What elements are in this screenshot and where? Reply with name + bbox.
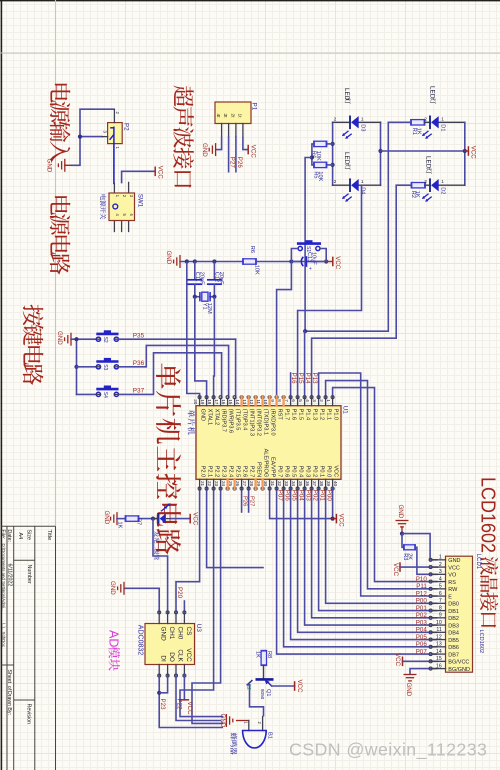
svg-text:S3: S3	[102, 364, 108, 370]
svg-text:DB2: DB2	[448, 616, 459, 622]
svg-text:VCC: VCC	[185, 648, 192, 662]
svg-text:2: 2	[319, 399, 324, 402]
svg-text:8050: 8050	[260, 689, 265, 700]
power VCC ADC	[180, 699, 190, 701]
svg-text:VCC: VCC	[334, 256, 341, 270]
node junction reset right	[324, 259, 328, 263]
svg-text:20pF: 20pF	[199, 272, 205, 285]
wire R4R5 to P14 node	[305, 158, 312, 332]
wire LCD pin16 to ground	[410, 669, 438, 675]
svg-text:21: 21	[200, 481, 205, 487]
svg-text:Number: Number	[26, 565, 32, 584]
svg-text:GND: GND	[165, 251, 172, 265]
svg-text:P0.6: P0.6	[284, 466, 290, 478]
wire P2.7 stub	[248, 488, 250, 513]
svg-text:16: 16	[221, 399, 226, 405]
power VCC top right	[465, 150, 469, 152]
switch S1	[298, 242, 320, 245]
svg-text:GND: GND	[219, 714, 226, 728]
connector P1	[215, 102, 251, 124]
svg-text:13: 13	[436, 642, 442, 648]
svg-text:(INT1)P3.3: (INT1)P3.3	[249, 409, 255, 436]
label 发光二极管	[154, 531, 160, 560]
svg-text:5: 5	[298, 399, 303, 402]
svg-text:CH0: CH0	[176, 627, 183, 640]
node junction VCC rail	[378, 149, 382, 153]
node junction R4R5 left	[310, 155, 314, 159]
svg-text:DB4: DB4	[448, 631, 459, 637]
svg-text:28: 28	[249, 481, 254, 487]
svg-text:File:: File:	[0, 530, 6, 540]
svg-text:12: 12	[436, 634, 442, 640]
svg-text:Date:: Date:	[6, 530, 12, 542]
svg-text:32: 32	[277, 481, 282, 487]
svg-text:4: 4	[439, 576, 442, 582]
svg-text:22: 22	[207, 481, 212, 487]
wire ADC DI down	[159, 675, 223, 728]
svg-text:VCC: VCC	[296, 680, 303, 694]
svg-text:P1.4: P1.4	[305, 409, 311, 421]
svg-text:1K: 1K	[416, 128, 422, 135]
wire P2.3 down	[192, 488, 223, 724]
svg-text:RST: RST	[277, 409, 283, 421]
resistor R1	[411, 120, 425, 125]
svg-text:P0.0: P0.0	[326, 466, 332, 478]
svg-text:P04: P04	[416, 627, 428, 634]
svg-text:15: 15	[228, 399, 233, 405]
svg-text:P27: P27	[249, 496, 255, 506]
svg-text:1K: 1K	[414, 191, 420, 198]
wire EA to VCC	[270, 488, 333, 519]
node junction DI DO	[157, 691, 161, 695]
pin 1 of P2	[113, 144, 115, 184]
wire P36	[119, 345, 229, 398]
label 单片机	[188, 410, 195, 435]
svg-text:1: 1	[243, 722, 248, 725]
svg-text:34: 34	[291, 481, 296, 487]
svg-text:DB3: DB3	[448, 623, 459, 629]
svg-text:2: 2	[115, 112, 120, 115]
svg-text:20pF: 20pF	[218, 272, 224, 285]
ground GND buttons	[65, 333, 71, 346]
wire P1 pin1 to VCC	[243, 137, 248, 150]
wire P1.5 stub	[297, 311, 299, 399]
svg-text:P37: P37	[133, 388, 145, 395]
svg-text:14: 14	[436, 649, 442, 655]
pins U1 top	[199, 398, 201, 405]
wire P0.2 to DB2	[312, 488, 438, 618]
svg-text:P2.4: P2.4	[228, 466, 234, 478]
svg-text:LED: LED	[424, 156, 431, 169]
svg-text:ALE/PROG: ALE/PROG	[263, 449, 269, 478]
svg-text:BG/GND: BG/GND	[448, 667, 470, 673]
svg-text:GND: GND	[56, 331, 63, 345]
svg-text:1: 1	[361, 116, 364, 122]
wire crystal rail	[180, 261, 243, 263]
svg-text:P1.3: P1.3	[312, 409, 318, 421]
svg-text:+: +	[306, 267, 312, 270]
wire ADC CS stub	[183, 601, 185, 614]
button S2	[96, 333, 118, 336]
svg-text:12: 12	[249, 399, 254, 405]
capacitor C12	[213, 262, 215, 280]
wire Q1 collector to buzzer	[247, 685, 263, 717]
svg-text:20: 20	[193, 399, 198, 405]
wire S1 left leg	[291, 249, 298, 262]
wire XTAL2 to MCU	[213, 297, 216, 399]
ic U3 ADC0832 body	[145, 624, 195, 665]
node junction Y1 left	[193, 295, 197, 299]
svg-text:P00: P00	[325, 490, 332, 502]
svg-text:D4: D4	[359, 187, 365, 194]
wire XTAL1 to MCU	[195, 297, 207, 399]
svg-text:P15: P15	[297, 373, 304, 385]
svg-text:R8: R8	[266, 651, 272, 658]
resistor R7	[126, 516, 139, 521]
crystal Y1	[195, 296, 200, 298]
wire S1 right leg	[320, 249, 326, 262]
svg-text:P0.4: P0.4	[298, 466, 304, 478]
label 电源电路	[50, 196, 71, 274]
svg-text:10K: 10K	[317, 171, 323, 181]
svg-text:P1.7: P1.7	[284, 409, 290, 421]
svg-text:P26: P26	[242, 496, 248, 506]
diode D3	[333, 121, 350, 123]
svg-text:A4: A4	[17, 533, 23, 540]
diode D4	[333, 184, 350, 186]
svg-text:LCD1602: LCD1602	[477, 477, 499, 553]
wire P2 pin2 to junction to GND	[71, 109, 114, 165]
svg-text:P0.5: P0.5	[291, 466, 297, 478]
wire P1.2 to LCD E	[319, 373, 438, 596]
svg-text:DB7: DB7	[448, 652, 459, 658]
svg-text:6/11/2022: 6/11/2022	[6, 564, 12, 587]
svg-text:P36: P36	[133, 360, 145, 367]
svg-text:P01: P01	[318, 490, 325, 502]
svg-text:10: 10	[263, 399, 268, 405]
power VCC DS1	[189, 514, 191, 524]
connector P2	[108, 123, 123, 144]
wire net P26	[235, 137, 237, 172]
wire SW1 pin2 to VCC	[122, 171, 156, 183]
svg-text:11: 11	[256, 399, 261, 404]
svg-text:GND: GND	[103, 511, 110, 525]
wire P1.6 stub	[290, 373, 292, 398]
node junction R4	[331, 142, 335, 146]
wire R2 to P13 net	[312, 185, 412, 338]
svg-text:35: 35	[298, 481, 303, 487]
svg-text:P1.5: P1.5	[298, 409, 304, 421]
label 单片机主控电路	[156, 363, 181, 554]
svg-text:11: 11	[436, 627, 441, 633]
wire P0.1 to DB1	[319, 488, 438, 611]
svg-text:CLK: CLK	[176, 649, 183, 662]
svg-text:1: 1	[441, 116, 444, 122]
svg-text:38: 38	[319, 481, 324, 487]
label 蜂鸣器	[230, 733, 237, 755]
svg-text:39: 39	[326, 481, 331, 487]
svg-text:VCC: VCC	[249, 145, 256, 159]
svg-text:GND: GND	[448, 558, 460, 564]
node junction LCD gnd	[400, 532, 404, 536]
power VCC near P1	[247, 145, 249, 155]
pins U3 bottom	[158, 665, 160, 675]
svg-text:DI: DI	[160, 655, 167, 662]
svg-text:33: 33	[284, 481, 289, 487]
power VCC LCD pin2	[399, 562, 401, 572]
wire R6 to reset node	[256, 261, 326, 263]
power VCC reset	[332, 257, 334, 267]
svg-text:VCC: VCC	[338, 514, 345, 528]
svg-text:VCC: VCC	[156, 166, 163, 180]
resistor R5	[327, 164, 333, 166]
svg-text:P12: P12	[416, 590, 428, 597]
svg-text:10: 10	[436, 620, 442, 626]
svg-text:BG/VCC: BG/VCC	[448, 660, 469, 666]
svg-text:36: 36	[305, 481, 310, 487]
wire R1 to P14 net	[305, 122, 411, 331]
svg-text:GND: GND	[397, 505, 404, 519]
ground GND near P1	[209, 143, 215, 156]
svg-text:Sheet of: Sheet of	[6, 670, 12, 691]
svg-text:U1: U1	[342, 406, 349, 415]
svg-text:CH1: CH1	[168, 627, 175, 640]
wire P0.5 to DB5	[291, 488, 438, 640]
svg-text:PSEN: PSEN	[256, 462, 262, 477]
svg-text:10uF: 10uF	[311, 252, 317, 265]
svg-text:P02: P02	[416, 612, 428, 619]
diode D2	[425, 184, 430, 186]
ground GND LCD bottom	[404, 675, 417, 681]
svg-text:P1.0: P1.0	[333, 409, 339, 421]
svg-text:7: 7	[284, 399, 289, 402]
svg-text:4: 4	[305, 399, 310, 402]
svg-text:3: 3	[439, 569, 442, 575]
wire GND to MCU pin20	[187, 262, 200, 399]
wire P1.1 to LCD RW	[326, 381, 438, 589]
svg-text:P2.2: P2.2	[214, 466, 220, 478]
wire D4 to P15 net	[298, 185, 362, 310]
resistor R3	[402, 534, 404, 548]
svg-text:P06: P06	[283, 490, 290, 502]
svg-text:LED: LED	[343, 152, 350, 165]
wire VCC pin40	[332, 488, 334, 519]
resistor R2	[412, 183, 426, 188]
svg-text:17: 17	[214, 399, 219, 405]
resistor R4	[327, 143, 333, 145]
svg-text:1: 1	[326, 399, 331, 402]
button S4	[96, 388, 118, 391]
svg-text:P2.3: P2.3	[221, 466, 227, 478]
svg-text:2: 2	[439, 562, 442, 568]
svg-text:ADC0832: ADC0832	[136, 625, 143, 655]
svg-text:P0.3: P0.3	[305, 466, 311, 478]
svg-text:29: 29	[256, 481, 261, 487]
svg-text:S2: S2	[102, 337, 108, 343]
svg-text:13: 13	[242, 399, 247, 405]
svg-text:DO: DO	[168, 652, 175, 662]
svg-text:P1.1: P1.1	[326, 409, 332, 421]
pins U3 top	[158, 614, 160, 624]
resistor R8	[261, 651, 266, 666]
orange highlight bottom pins	[226, 479, 228, 489]
svg-text:P27: P27	[229, 157, 236, 169]
svg-text:2: 2	[424, 179, 427, 185]
svg-text:DB1: DB1	[448, 609, 459, 615]
svg-text:S4: S4	[102, 392, 108, 398]
svg-text:P07: P07	[416, 648, 428, 655]
svg-text:19: 19	[200, 399, 205, 405]
svg-text:LED: LED	[428, 86, 435, 99]
diode D1	[425, 121, 430, 123]
svg-text:SW1: SW1	[137, 194, 144, 208]
buzzer B1	[248, 721, 250, 731]
svg-text:(WR)P3.6: (WR)P3.6	[228, 409, 234, 434]
wire ADC VCC down	[183, 675, 185, 700]
svg-text:Revision: Revision	[26, 704, 32, 725]
svg-text:VCC: VCC	[448, 565, 460, 571]
svg-text:10K: 10K	[253, 265, 259, 275]
sheet inner border horizontal	[0, 52, 500, 54]
svg-text:3: 3	[312, 399, 317, 402]
svg-text:8: 8	[277, 399, 282, 402]
svg-text:14: 14	[235, 399, 240, 405]
wire net P27	[228, 137, 230, 172]
wire P1.0 to LCD RS	[333, 388, 438, 582]
svg-text:9: 9	[270, 399, 275, 402]
wire P0.7 to DB7	[277, 488, 438, 655]
svg-text:1: 1	[115, 147, 120, 150]
svg-text:RW: RW	[448, 587, 458, 593]
svg-text:P26: P26	[236, 157, 243, 169]
svg-text:7: 7	[439, 598, 442, 604]
wire gnd to LCD pin1	[402, 534, 438, 560]
svg-text:2: 2	[334, 179, 337, 185]
pin 2 of P2	[113, 109, 115, 122]
svg-text:15: 15	[436, 656, 442, 662]
svg-text:E: E	[448, 594, 452, 600]
ground GND ADC	[118, 582, 124, 595]
svg-text:6: 6	[439, 591, 442, 597]
svg-text:VCC: VCC	[392, 563, 399, 577]
svg-text:P1.6: P1.6	[291, 409, 297, 421]
label 按键电路	[23, 305, 44, 385]
svg-text:P05: P05	[416, 634, 428, 641]
svg-text:P1: P1	[251, 103, 258, 111]
svg-text:P14: P14	[304, 373, 311, 385]
svg-text:DB5: DB5	[448, 638, 459, 644]
node junction R5	[331, 163, 335, 167]
svg-text:(RD)P3.7: (RD)P3.7	[221, 409, 227, 432]
node junction P14 net	[303, 329, 307, 333]
svg-text:Title: Title	[46, 530, 52, 541]
svg-text:24: 24	[221, 481, 226, 487]
svg-text:5: 5	[439, 584, 442, 590]
power VCC near SW1	[154, 167, 156, 177]
svg-text:1K: 1K	[117, 522, 123, 529]
wire reset to RST pin	[277, 262, 292, 399]
svg-text:P35: P35	[133, 332, 145, 339]
svg-text:12M: 12M	[206, 303, 212, 314]
svg-text:LCD1602: LCD1602	[478, 630, 484, 654]
svg-text:P07: P07	[276, 490, 283, 502]
title block lines	[1, 526, 55, 770]
orange highlight top pins	[240, 396, 242, 406]
svg-text:P0.2: P0.2	[312, 466, 318, 478]
node junction C11	[193, 259, 197, 263]
svg-text:R6: R6	[249, 246, 255, 253]
pins U1 bottom	[199, 479, 201, 487]
wire ADC GND pin to ground	[124, 588, 159, 613]
wire LED loop right	[380, 122, 382, 185]
svg-text:P1.2: P1.2	[319, 409, 325, 421]
capacitor C11	[194, 262, 196, 280]
svg-text:D1: D1	[440, 124, 446, 131]
label 电源开关	[100, 195, 106, 220]
ground GND DS1 row	[111, 512, 117, 525]
ground GND crystal rail	[174, 255, 180, 268]
wire P37	[119, 353, 222, 399]
svg-text:VCC: VCC	[470, 146, 477, 160]
node junction button row2	[74, 365, 78, 369]
svg-text:P00: P00	[416, 598, 428, 605]
svg-text:P16: P16	[290, 373, 297, 385]
svg-text:2t: 2t	[229, 114, 235, 119]
svg-text:40: 40	[333, 481, 338, 487]
wire DS1 node to ADC CH1	[153, 519, 168, 614]
sheet inner border vertical	[55, 0, 57, 770]
svg-text:AD: AD	[107, 630, 121, 647]
svg-text:P05: P05	[290, 490, 297, 502]
svg-text:VCC: VCC	[333, 465, 339, 477]
svg-text:P01: P01	[416, 605, 428, 612]
node junction pin40	[331, 517, 335, 521]
ground GND buzzer	[226, 714, 232, 727]
svg-text:8: 8	[439, 605, 442, 611]
svg-text:GND: GND	[160, 627, 167, 642]
svg-text:LCD1: LCD1	[475, 554, 481, 570]
power VCC Q1	[294, 681, 296, 691]
svg-text:D2: D2	[440, 187, 446, 194]
svg-text:R7: R7	[136, 518, 142, 525]
svg-text:P03: P03	[304, 490, 311, 502]
wire P2.1 to R8	[207, 488, 264, 568]
sheet left edge	[0, 0, 2, 770]
ic LCD1 body	[446, 556, 473, 672]
svg-text:37: 37	[312, 481, 317, 487]
svg-text:Size: Size	[26, 530, 32, 541]
wire P2.2 down	[180, 488, 223, 717]
svg-text:DB6: DB6	[448, 645, 459, 651]
svg-text:2K: 2K	[407, 553, 413, 560]
label 电源输入	[50, 84, 71, 162]
wire to S3	[77, 366, 97, 368]
svg-text:GND: GND	[200, 409, 206, 421]
svg-text:2: 2	[424, 116, 427, 122]
svg-text:30: 30	[263, 481, 268, 487]
svg-text:XTAL2: XTAL2	[214, 409, 220, 426]
wire reset VCC stem	[326, 261, 333, 263]
sheet top edge	[0, 0, 500, 2]
svg-text:P11: P11	[416, 583, 427, 590]
svg-text:26: 26	[235, 481, 240, 487]
svg-text:EA/VPP: EA/VPP	[270, 457, 276, 477]
svg-text:23: 23	[214, 481, 219, 487]
pins LCD left	[432, 559, 446, 561]
svg-text:P13: P13	[311, 373, 318, 385]
wire P0.6 to DB6	[284, 488, 438, 647]
svg-text:P06: P06	[416, 641, 428, 648]
